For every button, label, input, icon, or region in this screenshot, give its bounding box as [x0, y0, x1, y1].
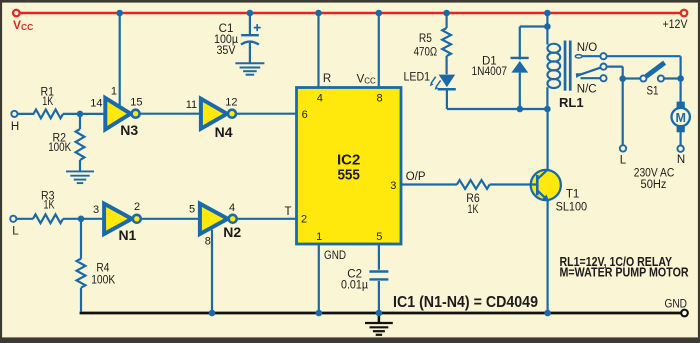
svg-text:O/P: O/P: [406, 171, 426, 183]
svg-text:1K: 1K: [42, 96, 53, 108]
svg-text:230V AC: 230V AC: [634, 167, 675, 179]
svg-text:470Ω: 470Ω: [414, 46, 438, 58]
svg-text:1: 1: [316, 231, 322, 243]
svg-text:100K: 100K: [91, 275, 115, 287]
svg-text:5: 5: [376, 231, 382, 243]
svg-text:N: N: [677, 154, 685, 166]
svg-text:N3: N3: [120, 122, 138, 138]
svg-text:GND: GND: [665, 298, 688, 310]
svg-text:N/O: N/O: [577, 42, 598, 54]
svg-text:R4: R4: [96, 263, 110, 275]
svg-text:M: M: [675, 111, 685, 125]
svg-text:N1: N1: [118, 227, 136, 243]
svg-text:555: 555: [337, 167, 360, 184]
svg-text:1N4007: 1N4007: [472, 66, 508, 78]
svg-text:12: 12: [225, 97, 237, 109]
svg-text:N2: N2: [223, 224, 241, 240]
svg-text:N/C: N/C: [577, 84, 597, 96]
svg-text:C1: C1: [219, 23, 234, 35]
svg-text:RL1: RL1: [559, 95, 584, 110]
svg-text:15: 15: [130, 97, 142, 109]
svg-text:+12V: +12V: [663, 19, 688, 31]
svg-text:T1: T1: [566, 189, 579, 201]
svg-text:GND: GND: [324, 250, 346, 262]
svg-text:H: H: [11, 121, 19, 133]
svg-text:4: 4: [229, 202, 235, 214]
svg-text:50Hz: 50Hz: [641, 179, 667, 191]
svg-text:L: L: [12, 226, 19, 238]
svg-text:M=WATER PUMP MOTOR: M=WATER PUMP MOTOR: [560, 265, 689, 279]
svg-text:R5: R5: [419, 33, 432, 45]
svg-text:1K: 1K: [44, 200, 55, 212]
svg-text:T: T: [284, 206, 291, 218]
svg-text:100K: 100K: [48, 142, 71, 154]
svg-text:35V: 35V: [217, 45, 236, 57]
svg-text:IC1 (N1-N4) = CD4049: IC1 (N1-N4) = CD4049: [393, 294, 538, 311]
svg-text:6: 6: [302, 109, 308, 121]
svg-text:2: 2: [134, 201, 140, 213]
svg-text:LED1: LED1: [404, 72, 431, 84]
svg-text:3: 3: [93, 204, 99, 216]
svg-text:2: 2: [301, 213, 307, 225]
svg-text:0.01µ: 0.01µ: [341, 279, 368, 291]
svg-text:SL100: SL100: [556, 201, 588, 213]
svg-text:8: 8: [377, 93, 383, 105]
svg-text:8: 8: [205, 236, 211, 248]
svg-text:1: 1: [111, 86, 117, 98]
svg-text:4: 4: [317, 93, 323, 105]
svg-text:14: 14: [90, 98, 102, 110]
svg-text:1K: 1K: [468, 204, 479, 216]
svg-text:L: L: [620, 155, 627, 167]
svg-text:3: 3: [390, 180, 396, 192]
svg-text:5: 5: [189, 204, 195, 216]
svg-text:R: R: [323, 73, 331, 85]
svg-text:11: 11: [186, 99, 197, 111]
svg-text:N4: N4: [215, 124, 233, 140]
svg-text:S1: S1: [647, 86, 659, 98]
